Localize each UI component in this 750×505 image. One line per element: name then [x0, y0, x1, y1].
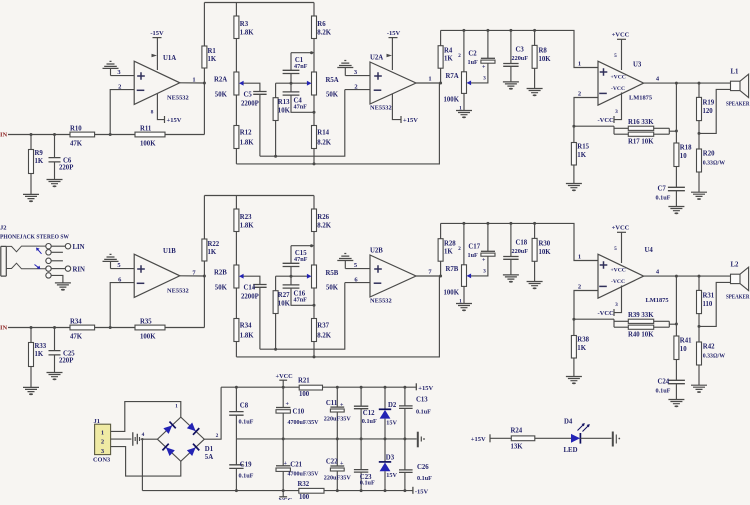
svg-text:C7: C7	[658, 186, 667, 193]
svg-text:R15: R15	[577, 144, 589, 151]
potentiometer R5A	[307, 72, 339, 99]
svg-text:47nF: 47nF	[294, 297, 308, 304]
svg-text:10K: 10K	[539, 56, 552, 63]
ground below R7A	[456, 111, 472, 119]
svg-text:R5A: R5A	[326, 77, 339, 84]
svg-text:+15V: +15V	[418, 385, 433, 392]
terminal circle tip	[46, 244, 51, 249]
speaker L1	[726, 69, 750, 108]
svg-text:C19: C19	[240, 461, 252, 468]
svg-text:1.8K: 1.8K	[240, 222, 254, 229]
capacitor C12	[354, 387, 377, 439]
svg-text:R33: R33	[35, 343, 47, 350]
wire LED to ground	[580, 437, 611, 439]
potentiometer R2B	[214, 265, 244, 292]
wire battery to bridge left	[141, 438, 158, 440]
svg-text:1K: 1K	[577, 152, 586, 159]
svg-text:220P: 220P	[59, 165, 73, 172]
svg-text:4700uF/35V: 4700uF/35V	[288, 472, 320, 478]
bridge rectifier D1 diamond	[157, 417, 213, 461]
wire output feedback net	[236, 83, 439, 164]
svg-text:J2: J2	[0, 225, 7, 232]
resistor R24	[511, 427, 535, 450]
svg-text:PHONEJACK STEREO SW: PHONEJACK STEREO SW	[0, 233, 70, 240]
svg-text:220uF35V: 220uF35V	[324, 416, 352, 422]
capacitor C8	[229, 387, 253, 439]
power -15V at op-amp U1A	[150, 30, 164, 70]
svg-text:-VCC: -VCC	[611, 86, 625, 92]
resistor R8	[532, 30, 551, 88]
svg-text:R9: R9	[35, 150, 44, 157]
power +15V at op-amp U1A	[151, 94, 182, 124]
capacitor C4	[283, 83, 316, 114]
svg-text:+15V: +15V	[403, 117, 418, 124]
svg-text:R23: R23	[240, 214, 252, 221]
ground below R33	[23, 387, 39, 395]
resistor R4	[438, 30, 453, 83]
power -VCC at U4	[598, 286, 622, 318]
capacitor C24	[656, 379, 685, 400]
wire +15V to R24	[490, 437, 511, 439]
potentiometer R7A	[444, 30, 472, 111]
diode bridge bottom-right	[186, 444, 199, 457]
capacitor C3	[503, 30, 528, 82]
wire feedback to output	[654, 321, 678, 327]
svg-text:R4: R4	[444, 48, 453, 55]
node +VCC terminal	[276, 373, 294, 387]
svg-text:-VCC: -VCC	[598, 310, 615, 317]
svg-text:10: 10	[680, 346, 687, 353]
svg-text:C13: C13	[416, 396, 428, 403]
ground below R15	[566, 184, 582, 192]
ground at pin 5 of U1B	[103, 254, 119, 268]
svg-text:1.8K: 1.8K	[240, 140, 254, 147]
resistor R16	[628, 119, 654, 130]
svg-text:D2: D2	[388, 402, 397, 409]
svg-text:1uF: 1uF	[468, 59, 479, 66]
svg-text:1: 1	[428, 76, 431, 83]
wire output feedback net	[236, 276, 439, 357]
svg-text:+: +	[284, 461, 288, 467]
svg-text:47nF: 47nF	[294, 256, 308, 263]
svg-text:1K: 1K	[444, 249, 453, 256]
ground below R42	[691, 385, 707, 393]
svg-text:100: 100	[299, 494, 310, 500]
svg-text:R10: R10	[70, 126, 82, 133]
ground below R8	[527, 89, 543, 97]
op-amp U1A	[134, 55, 188, 104]
wire pin 5 U1B	[111, 262, 135, 269]
svg-text:3: 3	[615, 302, 618, 308]
svg-text:47nF: 47nF	[294, 104, 308, 111]
svg-text:R19: R19	[703, 100, 715, 107]
svg-text:2200P: 2200P	[241, 101, 259, 108]
op-amp U2A	[370, 55, 416, 112]
svg-text:-15V: -15V	[150, 30, 164, 37]
wire wiper of R7A	[471, 63, 488, 83]
wire top rail to U4	[441, 222, 598, 261]
svg-text:1K: 1K	[444, 56, 453, 63]
zener diode D3	[379, 439, 398, 491]
svg-text:NE5532: NE5532	[370, 298, 392, 305]
svg-text:1: 1	[175, 404, 178, 410]
resistor R26	[312, 196, 332, 266]
resistor R37	[312, 288, 332, 358]
capacitor C6	[49, 135, 74, 180]
battery symbol	[133, 432, 145, 446]
svg-text:R22: R22	[208, 241, 220, 248]
wire J1 pin 2 to battery	[111, 438, 132, 440]
zener diode D2	[379, 387, 398, 439]
wire bridge right to positive rail	[204, 387, 221, 439]
svg-text:8: 8	[151, 110, 154, 116]
svg-text:U1A: U1A	[163, 55, 176, 62]
svg-text:IN: IN	[0, 131, 8, 138]
wire top rail tone stage	[204, 2, 314, 4]
svg-text:220uF: 220uF	[512, 248, 529, 255]
svg-text:1K: 1K	[208, 249, 217, 256]
switch arrow tip	[36, 248, 42, 254]
svg-text:R37: R37	[317, 323, 329, 330]
ground at pin 3 of U1A	[103, 61, 119, 75]
svg-text:R8: R8	[539, 48, 548, 55]
resistor R20	[697, 133, 726, 192]
capacitor C14	[241, 276, 267, 349]
svg-text:5: 5	[614, 246, 617, 252]
wire output node down to feedback	[203, 276, 205, 328]
resistor R38	[571, 319, 589, 376]
svg-text:C6: C6	[63, 158, 72, 165]
svg-text:LED: LED	[564, 447, 578, 454]
wire top of C1	[291, 51, 314, 54]
svg-text:1uF: 1uF	[468, 252, 479, 259]
wire input net	[8, 326, 204, 329]
diode bridge top-left	[163, 422, 176, 435]
svg-text:1: 1	[578, 254, 581, 261]
svg-text:2200P: 2200P	[241, 294, 259, 301]
svg-text:C5: C5	[244, 92, 253, 99]
wire output pin 7 U2B	[416, 269, 442, 278]
svg-text:2: 2	[101, 439, 104, 446]
wire pin 6 U2B	[345, 276, 370, 283]
wire feedback node	[572, 318, 628, 328]
wire pin 3 U1A	[111, 69, 135, 76]
svg-text:R6: R6	[317, 21, 326, 28]
capacitor C15	[283, 246, 308, 278]
resistor R34	[70, 319, 95, 341]
svg-text:110: 110	[703, 301, 713, 308]
capacitor C1	[283, 53, 308, 85]
svg-text:220P: 220P	[59, 358, 73, 365]
svg-text:C24: C24	[658, 379, 670, 386]
node IN input left	[0, 131, 8, 138]
capacitor C7	[656, 186, 685, 207]
svg-text:+: +	[482, 258, 486, 264]
capacitor C2	[468, 30, 496, 70]
connector J2 phonejack	[0, 225, 70, 241]
svg-text:1: 1	[578, 61, 581, 68]
svg-text:L2: L2	[731, 262, 740, 269]
svg-text:100K: 100K	[444, 97, 460, 104]
op-amp U1B	[134, 248, 188, 297]
node +15V terminal	[416, 383, 433, 392]
wire top rail to U3	[441, 29, 598, 68]
svg-text:-15V: -15V	[415, 489, 429, 496]
svg-text:NE5532: NE5532	[167, 288, 189, 295]
svg-text:+VCC: +VCC	[611, 75, 626, 81]
capacitor C26	[399, 439, 432, 491]
svg-text:R41: R41	[680, 338, 692, 345]
resistor R10	[70, 126, 95, 148]
svg-text:1: 1	[192, 76, 195, 83]
capacitor C23	[354, 439, 375, 491]
svg-text:C2: C2	[468, 51, 477, 58]
resistor R33	[29, 328, 47, 388]
svg-text:15V: 15V	[386, 419, 397, 426]
ground below R20	[691, 192, 707, 200]
svg-text:C17: C17	[468, 244, 480, 251]
power amp U4 LM1875	[598, 247, 669, 304]
op-amp U2B	[370, 248, 416, 305]
terminal circle ring	[46, 266, 51, 271]
svg-text:10K: 10K	[278, 301, 291, 308]
svg-text:R1: R1	[208, 48, 217, 55]
svg-text:8.2K: 8.2K	[317, 222, 331, 229]
svg-text:R14: R14	[317, 130, 329, 137]
svg-text:0.1uF: 0.1uF	[656, 388, 671, 395]
svg-text:C25: C25	[63, 351, 75, 358]
ground at pin 3 of U2A	[337, 61, 353, 76]
svg-text:47K: 47K	[70, 140, 83, 147]
resistor R31	[697, 276, 715, 328]
svg-text:LM1875: LM1875	[629, 95, 652, 102]
node +15V LED supply	[471, 434, 490, 443]
capacitor C22	[324, 439, 352, 491]
power +VCC at U4	[612, 225, 630, 264]
svg-text:+VCC: +VCC	[611, 268, 626, 274]
svg-text:U4: U4	[645, 247, 654, 254]
svg-text:8.2K: 8.2K	[317, 140, 331, 147]
svg-text:R2A: R2A	[214, 77, 227, 84]
svg-text:C10: C10	[293, 408, 305, 415]
resistor R22	[202, 196, 220, 277]
wire wiper net R5B	[276, 275, 308, 277]
power +15V at op-amp U2A	[392, 94, 418, 124]
svg-text:4700uF/35V: 4700uF/35V	[288, 420, 320, 426]
svg-text:R31: R31	[703, 293, 715, 300]
power amp U3 LM1875	[598, 61, 652, 105]
wire pin 2 U1A	[110, 83, 134, 134]
phonejack body	[1, 246, 7, 276]
svg-text:50K: 50K	[215, 285, 228, 292]
wire pin 2 U2A	[345, 83, 370, 90]
wire pin 2 of U4	[574, 284, 598, 320]
svg-text:47K: 47K	[70, 333, 83, 340]
svg-text:-15V: -15V	[387, 30, 401, 37]
svg-text:R3: R3	[240, 21, 249, 28]
power -15V at op-amp U2A	[387, 30, 401, 70]
svg-text:47nF: 47nF	[294, 63, 308, 70]
svg-text:0.1uF: 0.1uF	[362, 418, 377, 425]
wire J1 pin 3 to bridge bottom	[111, 447, 181, 477]
phonejack ring contact	[6, 263, 45, 269]
svg-text:0.1uF: 0.1uF	[417, 475, 432, 482]
svg-text:120: 120	[703, 108, 714, 115]
svg-text:13K: 13K	[511, 444, 524, 451]
svg-text:RIN: RIN	[73, 267, 86, 274]
capacitor C10	[276, 387, 319, 439]
power +VCC at U3	[612, 32, 630, 71]
svg-text:1K: 1K	[35, 158, 44, 165]
wire LIN	[51, 244, 84, 252]
ground below C24	[668, 400, 684, 408]
wire wiper of R7B	[471, 256, 488, 276]
capacitor C11	[324, 387, 352, 439]
svg-text:L1: L1	[731, 69, 740, 76]
wire pin 3 U2A	[345, 69, 370, 76]
svg-text:R17 10K: R17 10K	[628, 139, 654, 146]
svg-text:LIN: LIN	[73, 244, 85, 251]
svg-text:8.2K: 8.2K	[317, 29, 331, 36]
svg-text:+: +	[482, 65, 486, 71]
potentiometer R2A	[214, 72, 244, 99]
svg-text:3: 3	[615, 109, 618, 115]
svg-text:U3: U3	[633, 62, 642, 69]
svg-text:1.8K: 1.8K	[240, 333, 254, 340]
svg-text:U2A: U2A	[370, 55, 383, 62]
wire wiper net R5A	[276, 82, 308, 84]
phonejack tip contact	[6, 246, 45, 252]
svg-text:R7B: R7B	[446, 266, 459, 273]
svg-text:1K: 1K	[35, 351, 44, 358]
svg-text:C21: C21	[290, 462, 302, 469]
potentiometer R7B	[444, 223, 472, 304]
phonejack sleeve terminal	[46, 273, 63, 283]
ground below C3	[503, 82, 519, 90]
svg-text:C26: C26	[417, 464, 429, 471]
svg-text:R38: R38	[577, 337, 589, 344]
wire inverting net to pin 2 of U2A	[260, 90, 345, 157]
svg-text:R27: R27	[278, 292, 290, 299]
capacitor C17	[468, 223, 496, 263]
ground bar middle rail	[418, 432, 425, 448]
node IN input right	[0, 324, 8, 331]
resistor R23	[234, 196, 254, 266]
capacitor C16	[283, 276, 316, 307]
resistor R34	[234, 288, 254, 357]
resistor R9	[29, 135, 44, 195]
switch contact stub 1	[46, 250, 63, 255]
resistor R30	[532, 223, 551, 281]
svg-text:0.1uF: 0.1uF	[416, 409, 431, 416]
svg-text:1: 1	[101, 429, 104, 436]
ground bar LED	[613, 432, 620, 447]
svg-text:2: 2	[578, 284, 581, 291]
capacitor C19	[229, 439, 253, 491]
svg-text:R42: R42	[703, 344, 715, 351]
svg-text:+: +	[286, 401, 290, 407]
ground phonejack sleeve	[55, 283, 71, 291]
svg-text:10K: 10K	[539, 249, 552, 256]
svg-text:0.1uF: 0.1uF	[239, 473, 254, 480]
resistor R14	[312, 95, 332, 165]
node -VCC terminal	[277, 491, 293, 504]
svg-text:SPEAKER: SPEAKER	[726, 295, 750, 301]
resistor R11	[135, 126, 165, 148]
switch arrow ring	[35, 265, 41, 270]
svg-text:U2B: U2B	[370, 248, 383, 255]
svg-text:C22: C22	[326, 459, 338, 466]
resistor R27	[273, 276, 290, 351]
svg-text:R32: R32	[298, 481, 310, 488]
svg-text:R30: R30	[539, 241, 551, 248]
svg-text:R2B: R2B	[214, 270, 227, 277]
svg-text:100: 100	[299, 391, 310, 398]
wire feedback to output	[654, 128, 678, 134]
speaker L2	[726, 262, 750, 301]
svg-text:2: 2	[354, 83, 357, 90]
svg-text:R20: R20	[703, 151, 715, 158]
svg-text:8.2K: 8.2K	[317, 333, 331, 340]
capacitor C21	[276, 439, 319, 491]
svg-text:+: +	[340, 461, 344, 467]
svg-text:0.1uF: 0.1uF	[656, 195, 671, 202]
svg-text:0.33Ω/W: 0.33Ω/W	[703, 161, 725, 167]
wire RIN	[51, 266, 85, 274]
resistor R18	[674, 83, 692, 187]
svg-text:0.1uF: 0.1uF	[360, 479, 375, 486]
ground below C25	[47, 373, 63, 381]
wire output of U3	[644, 76, 731, 85]
wire output pin 1 U2A	[416, 76, 442, 85]
resistor R15	[571, 126, 589, 183]
svg-text:SPEAKER: SPEAKER	[726, 102, 750, 108]
wire J1 pin 1 to bridge top	[111, 402, 181, 432]
svg-text:R5B: R5B	[326, 270, 339, 277]
wire output node down to feedback	[203, 83, 205, 135]
resistor R42	[697, 326, 726, 385]
svg-text:+VCC: +VCC	[612, 32, 630, 39]
svg-text:1K: 1K	[577, 345, 586, 352]
resistor R12	[234, 95, 254, 164]
wire pin 6 U1B	[110, 276, 134, 327]
ground below C18	[503, 275, 519, 283]
svg-text:10K: 10K	[278, 108, 291, 115]
svg-text:C18: C18	[516, 240, 528, 247]
connector J1	[93, 418, 111, 463]
potentiometer R5B	[307, 265, 339, 292]
svg-text:R16 33K: R16 33K	[628, 119, 654, 126]
svg-text:+VCC: +VCC	[612, 225, 630, 232]
svg-text:+15V: +15V	[471, 436, 486, 443]
wire inverting net to pin 6 of U2B	[260, 283, 345, 350]
svg-text:100K: 100K	[140, 333, 156, 340]
resistor R19	[697, 83, 715, 135]
svg-text:R7A: R7A	[446, 73, 459, 80]
wire output pin 1 U1A	[180, 76, 206, 84]
resistor R32	[298, 481, 325, 501]
svg-text:D4: D4	[564, 419, 573, 426]
resistor R17	[628, 132, 654, 145]
svg-text:10: 10	[680, 153, 687, 160]
wire input net	[8, 133, 204, 136]
svg-text:0.33Ω/W: 0.33Ω/W	[703, 354, 725, 360]
resistor R13	[273, 83, 290, 158]
ground below R30	[527, 282, 543, 290]
capacitor C13	[399, 387, 431, 439]
svg-text:D3: D3	[386, 455, 395, 462]
svg-text:U1B: U1B	[163, 248, 176, 255]
